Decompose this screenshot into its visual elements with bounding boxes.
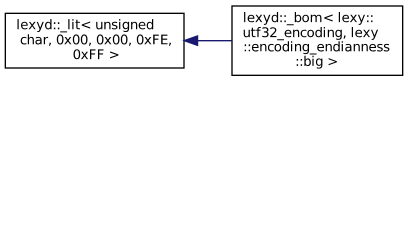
label line R3: ::encoding_endianness [245,41,390,54]
label line L2: char, 0x00, 0x00, 0xFE, [21,34,171,46]
node: base class box lexyd::_lit< unsigned char, 0x00, 0x00, 0xFE, 0xFF > [5,13,184,68]
node: derived class box lexyd::_bom< lexy::utf32_encoding, lexy::encoding_endianness::big > [232,6,403,75]
label line R4: ::big > [297,56,337,69]
arrowhead pointing to base class [184,36,197,45]
inheritance edge (midnightblue) [198,40,232,42]
label line R2: utf32_encoding, lexy [244,27,378,40]
label line R1: lexyd::_bom< lexy:: [244,12,372,25]
label line L1: lexyd::_lit< unsigned [18,19,154,32]
label line L3: 0xFF > [74,49,119,59]
doxygen inheritance graph: lexyd::_bom< lexy::utf32_encoding, lexy::encoding_endianness::big > [0,0,408,81]
